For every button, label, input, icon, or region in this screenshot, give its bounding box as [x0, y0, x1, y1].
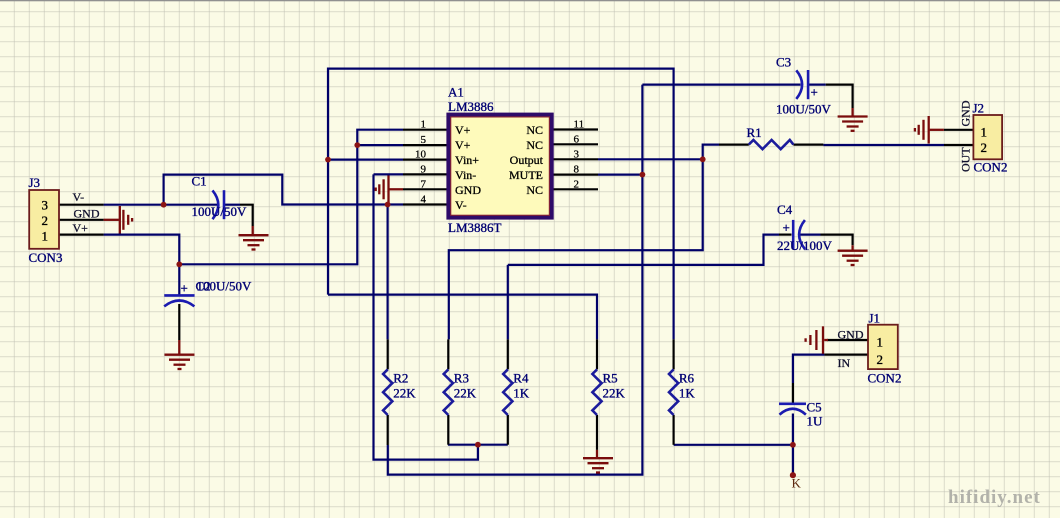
wire R3 bottom to R4 bottom	[448, 444, 508, 446]
svg-text:Vin-: Vin-	[455, 168, 476, 182]
wire C3 right plate stub	[808, 83, 826, 85]
svg-text:IN: IN	[838, 356, 851, 370]
svg-text:NC: NC	[526, 123, 543, 137]
svg-text:CON2: CON2	[974, 160, 1008, 175]
wire Vin- down and around to R3/R4 bottom	[374, 174, 478, 459]
pin U1-8	[554, 174, 599, 176]
svg-text:1: 1	[981, 125, 988, 140]
svg-text:LM3886: LM3886	[448, 99, 494, 114]
svg-text:1U: 1U	[807, 414, 824, 429]
svg-text:3: 3	[574, 149, 580, 161]
svg-text:Vin+: Vin+	[455, 153, 479, 167]
svg-text:5: 5	[421, 134, 427, 146]
svg-text:A1: A1	[448, 85, 464, 100]
capacitor C3	[796, 70, 808, 99]
svg-text:Output: Output	[510, 153, 544, 167]
ground power-bar at J1 pin1	[806, 326, 828, 354]
svg-text:1K: 1K	[513, 385, 530, 400]
svg-text:C1: C1	[192, 174, 207, 189]
pin R2 bottom	[387, 415, 389, 445]
svg-text:CON3: CON3	[29, 250, 63, 265]
svg-text:10: 10	[415, 149, 427, 161]
svg-text:GND: GND	[74, 207, 100, 221]
svg-text:9: 9	[421, 163, 427, 175]
pin R5 bottom	[596, 415, 598, 450]
wire IC pin9 Vin- stub	[374, 173, 404, 175]
wire branch to IC pin10	[328, 159, 403, 161]
pin U1-5	[403, 144, 447, 146]
pin J3-2	[59, 219, 104, 221]
wire R4 top to C4 left	[508, 235, 779, 265]
svg-text:C3: C3	[776, 55, 791, 70]
svg-text:1: 1	[877, 335, 884, 350]
svg-text:GND: GND	[455, 183, 481, 197]
pin C2 bottom lead	[178, 304, 180, 340]
svg-text:7: 7	[421, 178, 427, 190]
svg-text:+: +	[783, 220, 790, 235]
wire Vin+ vertical, top rail to R6	[328, 69, 674, 340]
ground earth at R5	[583, 450, 613, 473]
svg-text:R3: R3	[454, 370, 469, 385]
ground earth at C3	[838, 108, 868, 131]
svg-text:NC: NC	[526, 183, 543, 197]
wire branch to IC pin5	[357, 144, 403, 146]
ground earth at C2	[165, 340, 195, 369]
wire R2 top from V- junction	[387, 205, 389, 340]
pin R3 top	[447, 339, 449, 369]
resistor R6	[669, 369, 678, 415]
node pin5 junction	[354, 142, 360, 148]
ground earth at C4	[838, 245, 868, 265]
pin J1-1	[827, 339, 868, 341]
resistor R2	[383, 369, 392, 415]
pin C4 left lead	[779, 234, 792, 236]
svg-text:J1: J1	[869, 311, 881, 326]
svg-text:2: 2	[981, 140, 988, 155]
pin J3-3	[59, 204, 104, 206]
pin C4 right lead	[821, 235, 853, 246]
svg-text:J2: J2	[973, 101, 985, 116]
pin U1-10	[403, 159, 447, 161]
svg-text:+: +	[811, 85, 818, 100]
ground earth at C1	[239, 226, 269, 250]
svg-text:V+: V+	[455, 138, 471, 152]
pin R4 top	[507, 339, 509, 369]
wire R1 right to J2 pin2	[823, 144, 944, 146]
node R3/R4 bottom junction	[475, 442, 481, 448]
pin U1-9	[403, 173, 447, 175]
pin C1 right lead to ground	[240, 205, 253, 226]
wire C5 bottom to node K	[792, 414, 794, 476]
pin U1-1	[403, 129, 447, 131]
svg-text:22U/100V: 22U/100V	[777, 238, 833, 253]
svg-text:1: 1	[42, 229, 49, 244]
resistor R1	[749, 140, 794, 149]
capacitor C5	[779, 404, 806, 415]
pin J1-2	[824, 354, 868, 356]
svg-text:100U/50V: 100U/50V	[192, 204, 248, 219]
pin C5 top lead	[792, 383, 794, 403]
svg-text:MUTE: MUTE	[509, 168, 543, 182]
pin R3 bottom	[447, 415, 449, 445]
pin R1 left	[719, 144, 749, 146]
svg-text:1: 1	[421, 119, 427, 131]
svg-text:22K: 22K	[454, 385, 477, 400]
wire C5 top to J1 pin2	[793, 355, 825, 383]
ground power-bar at J2 pin1	[915, 116, 944, 144]
node V+ / C2 junction	[176, 261, 182, 267]
pin R6 bottom	[672, 415, 674, 445]
pin C3 right lead	[826, 85, 853, 108]
svg-text:hifidiy.net: hifidiy.net	[948, 487, 1041, 508]
svg-text:C5: C5	[807, 400, 822, 415]
pin U1-11	[554, 128, 599, 130]
capacitor C2	[164, 295, 194, 306]
pin U1-2	[554, 188, 599, 190]
pin R2 top	[387, 339, 389, 369]
svg-text:1K: 1K	[679, 385, 696, 400]
svg-text:OUT: OUT	[959, 147, 973, 172]
pin J3-1	[59, 234, 104, 236]
svg-text:+: +	[181, 281, 188, 296]
pin R4 bottom	[507, 415, 509, 445]
connector J2 body	[973, 115, 1002, 159]
resistor R5	[592, 369, 601, 415]
svg-text:R4: R4	[513, 370, 529, 385]
wire C1 right plate to ground corner	[224, 204, 240, 206]
pin R6 top	[672, 339, 674, 369]
svg-text:2: 2	[574, 179, 580, 191]
connector J3 body	[29, 190, 59, 249]
node R6/C5 junction	[790, 442, 796, 448]
svg-text:R6: R6	[679, 370, 695, 385]
svg-text:2: 2	[42, 213, 49, 228]
svg-text:22K: 22K	[393, 385, 416, 400]
svg-text:NC: NC	[526, 138, 543, 152]
wire V- bypass route over C1 to IC pin4	[164, 175, 403, 206]
op-amp U1 LM3886 body	[448, 115, 552, 218]
ground power-bar at U1 pin7	[376, 176, 403, 204]
node Output junction	[700, 156, 706, 162]
svg-text:GND: GND	[959, 100, 973, 126]
wire MUTE vertical down to R2 bottom	[388, 85, 643, 475]
wire V+ rail right and up to IC pin1	[179, 130, 403, 265]
svg-text:6: 6	[574, 134, 580, 146]
wire C3 left from MUTE vertical	[642, 83, 800, 85]
pin U1-7	[403, 188, 447, 190]
resistor R4	[503, 369, 512, 415]
wire R1 left corner stub	[703, 145, 719, 160]
svg-text:LM3886T: LM3886T	[448, 220, 502, 235]
pin U1-6	[554, 143, 599, 145]
wire Output to R1 and down to R3 top	[449, 159, 703, 339]
svg-text:100U/50V: 100U/50V	[197, 279, 253, 294]
wire V+ from J3 pin1 down to C2 junction	[104, 235, 180, 295]
wire MUTE stub	[598, 174, 642, 176]
resistor R3	[444, 369, 453, 415]
svg-text:V-: V-	[73, 190, 85, 204]
svg-text:R2: R2	[393, 370, 408, 385]
node K endpoint	[790, 472, 796, 478]
svg-text:2: 2	[877, 352, 884, 367]
node V- / C1 junction	[161, 202, 167, 208]
svg-text:K: K	[792, 476, 802, 491]
svg-text:22K: 22K	[603, 385, 626, 400]
connector J1 body	[868, 325, 898, 369]
node MUTE junction	[640, 172, 646, 178]
svg-text:V-: V-	[455, 198, 467, 212]
svg-text:R1: R1	[747, 125, 762, 140]
wire R4 top	[507, 265, 509, 340]
node V- / R2 junction	[385, 202, 391, 208]
capacitor C1	[213, 190, 225, 219]
node pin10 junction	[325, 157, 331, 163]
pin U1-4	[403, 203, 447, 205]
pin J2-2	[944, 144, 973, 146]
wire C4 right stub	[800, 234, 821, 236]
pin U1-3	[554, 158, 599, 160]
ground power-bar at J3 pin2	[104, 206, 133, 234]
svg-text:100U/50V: 100U/50V	[776, 102, 832, 117]
wire V- from J3 pin3 to C1	[104, 204, 217, 206]
svg-text:GND: GND	[838, 328, 864, 342]
pin R1 right	[793, 144, 823, 146]
svg-text:11: 11	[574, 119, 585, 131]
svg-text:V+: V+	[455, 123, 471, 137]
svg-text:R5: R5	[603, 370, 618, 385]
wire Vin+ to R5 top	[328, 295, 597, 340]
svg-text:3: 3	[42, 198, 49, 213]
pin R5 top	[596, 339, 598, 369]
svg-text:C4: C4	[777, 202, 793, 217]
svg-text:V+: V+	[73, 221, 89, 235]
svg-text:CON2: CON2	[868, 371, 902, 386]
svg-text:J3: J3	[29, 175, 41, 190]
svg-text:4: 4	[421, 194, 427, 206]
pin J2-1	[944, 129, 974, 131]
svg-text:8: 8	[574, 164, 580, 176]
wire R6 bottom to C5 junction	[674, 444, 793, 446]
capacitor C4	[793, 220, 805, 249]
